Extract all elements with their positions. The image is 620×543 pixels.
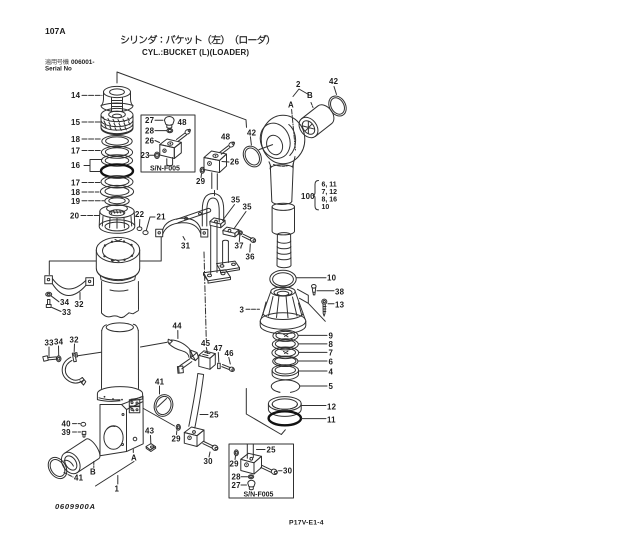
ring 28 (box1): [167, 129, 173, 133]
svg-text:15: 15: [71, 118, 81, 127]
ring 12 cup: [268, 397, 301, 417]
bolt 36: [242, 234, 256, 243]
ring 17 lower: [101, 176, 133, 188]
svg-text:17: 17: [71, 179, 81, 188]
bracket 35 a: [210, 218, 225, 228]
pipe 25 (main): [189, 374, 204, 429]
ring 17 upper: [101, 146, 132, 158]
bolt 48 (main): [220, 141, 236, 154]
ring 41 bottom: [44, 454, 70, 482]
svg-text:7, 12: 7, 12: [322, 189, 338, 196]
ring 42 left: [240, 143, 265, 170]
plug 27 (box2): [248, 480, 255, 489]
ring 18 lower: [100, 185, 133, 197]
svg-text:17: 17: [71, 147, 81, 156]
svg-text:A: A: [131, 454, 137, 463]
bolt 33 lower: [43, 356, 57, 361]
svg-text:12: 12: [327, 403, 337, 412]
ring 23 (box1): [155, 152, 160, 158]
svg-text:2: 2: [296, 80, 301, 89]
svg-text:42: 42: [329, 77, 339, 86]
svg-text:32: 32: [75, 300, 85, 309]
svg-text:43: 43: [145, 427, 155, 436]
svg-text:S/N-F005: S/N-F005: [150, 166, 180, 173]
svg-text:CYL.:BUCKET (L)(LOADER): CYL.:BUCKET (L)(LOADER): [142, 48, 249, 57]
svg-text:4: 4: [329, 368, 334, 377]
ring 29 (box2): [234, 450, 238, 456]
svg-text:18: 18: [71, 188, 81, 197]
washer 34 upper: [46, 292, 52, 296]
part 45 block: [199, 351, 216, 370]
svg-text:34: 34: [54, 338, 64, 347]
ring 6: [273, 356, 298, 366]
rings 22: [137, 227, 142, 231]
ring 29 (main top): [200, 167, 204, 173]
svg-text:B: B: [307, 91, 313, 100]
svg-text:20: 20: [70, 212, 80, 221]
bushing B (top): [295, 101, 338, 141]
svg-text:41: 41: [74, 474, 84, 483]
ring 37: [238, 231, 242, 235]
right pipe foot: [217, 261, 240, 273]
valve block (box2): [241, 453, 262, 474]
svg-text:29: 29: [196, 177, 206, 186]
svg-text:23: 23: [141, 151, 151, 160]
valve block 26 (box1): [160, 139, 182, 166]
valve block 26 (main): [204, 151, 227, 190]
Japanese title: [121, 35, 269, 44]
svg-text:100: 100: [301, 192, 315, 201]
svg-text:29: 29: [172, 435, 182, 444]
bolt 30 (box2): [261, 465, 278, 475]
leader to S/N box 2: [246, 389, 285, 435]
svg-text:30: 30: [283, 467, 293, 476]
ring 40: [81, 422, 86, 426]
svg-text:35: 35: [243, 203, 253, 212]
twin pipes below arch: [211, 222, 229, 274]
svg-text:47: 47: [214, 344, 224, 353]
svg-text:46: 46: [225, 349, 235, 358]
svg-text:42: 42: [247, 128, 257, 137]
bolt 48 (box1): [177, 128, 192, 141]
ring 29 (main bottom): [176, 424, 180, 430]
svg-text:B: B: [90, 468, 96, 477]
ring 16 thick black: [101, 164, 133, 177]
rod eye (part A): [255, 110, 304, 168]
plate and diagonal at right of 3: [298, 289, 326, 321]
bolt 30 (main): [203, 442, 219, 452]
svg-text:1: 1: [115, 485, 120, 494]
ring 19: [105, 196, 129, 205]
svg-text:44: 44: [173, 322, 183, 331]
svg-text:21: 21: [157, 213, 167, 222]
svg-text:6, 11: 6, 11: [322, 182, 337, 189]
svg-text:14: 14: [71, 91, 81, 100]
svg-text:10: 10: [322, 204, 330, 211]
svg-text:27: 27: [232, 481, 242, 490]
ring 4: [272, 365, 298, 380]
svg-text:48: 48: [221, 133, 231, 142]
svg-text:36: 36: [246, 253, 256, 262]
svg-text:33: 33: [62, 308, 72, 317]
svg-text:32: 32: [70, 336, 80, 345]
svg-text:26: 26: [145, 137, 155, 146]
svg-text:10: 10: [327, 274, 337, 283]
bolt 46: [222, 365, 235, 373]
svg-text:34: 34: [60, 298, 70, 307]
ring 11 thick: [269, 411, 301, 425]
bracket 32 lower clip: [72, 353, 77, 362]
svg-text:5: 5: [329, 382, 334, 391]
svg-text:18: 18: [71, 135, 81, 144]
ring 8: [272, 339, 298, 350]
svg-text:0609900A: 0609900A: [55, 502, 96, 511]
clamp bar: [177, 208, 211, 222]
pipe 25 (box2): [247, 444, 253, 458]
svg-text:41: 41: [155, 378, 165, 387]
S/N-F005 inset box 1: [141, 115, 195, 172]
ring 41 collar: [152, 392, 176, 418]
clamp band lower C: [62, 357, 86, 385]
leader 32 lower to part 44: [78, 342, 168, 356]
part 3 cushion gland: [260, 287, 306, 334]
bolt 33 upper: [46, 300, 51, 308]
svg-text:31: 31: [181, 242, 191, 251]
svg-text:7: 7: [329, 349, 334, 358]
washer 34 lower: [56, 356, 61, 362]
rod segment 2: [272, 203, 294, 235]
svg-text:29: 29: [230, 460, 240, 469]
ring 10: [270, 270, 296, 288]
cylinder head (big): [96, 237, 139, 317]
left pipe foot: [204, 270, 231, 283]
svg-text:33: 33: [45, 339, 55, 348]
ring 16 pair: [101, 155, 132, 166]
svg-text:35: 35: [231, 196, 241, 205]
ring 28 (box2): [248, 475, 253, 479]
svg-text:26: 26: [230, 158, 240, 167]
part 14 rod nut: [101, 86, 133, 111]
svg-text:25: 25: [210, 411, 220, 420]
svg-text:107A: 107A: [45, 26, 66, 36]
part 44 fork: [168, 339, 198, 373]
svg-text:45: 45: [201, 339, 211, 348]
svg-text:19: 19: [71, 197, 81, 206]
leader line long diagonal from stack to 42: [117, 72, 247, 127]
rod segment 3 threaded: [277, 233, 291, 268]
svg-text:16: 16: [71, 161, 81, 170]
ring 7: [272, 347, 299, 359]
cylinder tube (part 1): [102, 323, 139, 389]
clamp 32 upper saddle: [45, 276, 94, 296]
rod segment 1: [270, 164, 293, 205]
tube collar: [97, 387, 142, 402]
svg-text:P17V-E1-4: P17V-E1-4: [289, 520, 324, 527]
svg-text:3: 3: [240, 306, 245, 315]
svg-text:30: 30: [204, 457, 214, 466]
ring 18 upper: [102, 136, 132, 148]
svg-text:Serial No: Serial No: [45, 66, 72, 73]
svg-text:28: 28: [145, 127, 155, 136]
svg-text:25: 25: [267, 446, 277, 455]
ring 42 right: [325, 93, 349, 119]
base block: [100, 396, 143, 456]
svg-text:37: 37: [235, 242, 245, 251]
ring 5: [271, 380, 299, 392]
bracket 35 b: [223, 227, 239, 237]
ring 9: [273, 330, 298, 341]
collar port pads: [129, 400, 140, 413]
svg-text:11: 11: [327, 416, 336, 425]
S/N-F005 inset box 2: [229, 444, 294, 498]
clamp 31 arc: [156, 218, 208, 237]
bushing B (bottom): [58, 437, 103, 478]
svg-text:A: A: [288, 101, 294, 110]
svg-text:38: 38: [335, 288, 345, 297]
part 43 wedge: [146, 444, 156, 452]
valve block bottom (main): [184, 427, 204, 447]
serial no caption: [45, 59, 68, 65]
svg-text:8, 16: 8, 16: [322, 197, 338, 204]
centerline dash-dot: [204, 252, 206, 342]
part 15 piston: [101, 108, 133, 134]
bolt 13: [322, 299, 327, 316]
svg-text:6: 6: [329, 358, 334, 367]
svg-text:22: 22: [135, 210, 145, 219]
svg-text:006001-: 006001-: [71, 59, 94, 66]
bolt 39: [82, 431, 86, 437]
svg-text:13: 13: [335, 301, 345, 310]
bolt 38: [312, 285, 317, 295]
pipe arch: [202, 194, 223, 227]
leader port to ring 29: [144, 409, 175, 427]
svg-text:39: 39: [62, 428, 72, 437]
pin 47: [218, 363, 221, 368]
plug 27 (box1): [165, 117, 175, 129]
leader A diagonal: [96, 462, 135, 487]
svg-text:48: 48: [178, 118, 188, 127]
bracket line head to clamp32: [49, 237, 161, 275]
svg-text:S/N-F005: S/N-F005: [244, 492, 274, 499]
svg-text:27: 27: [145, 116, 155, 125]
part 20 gland: [99, 205, 135, 234]
